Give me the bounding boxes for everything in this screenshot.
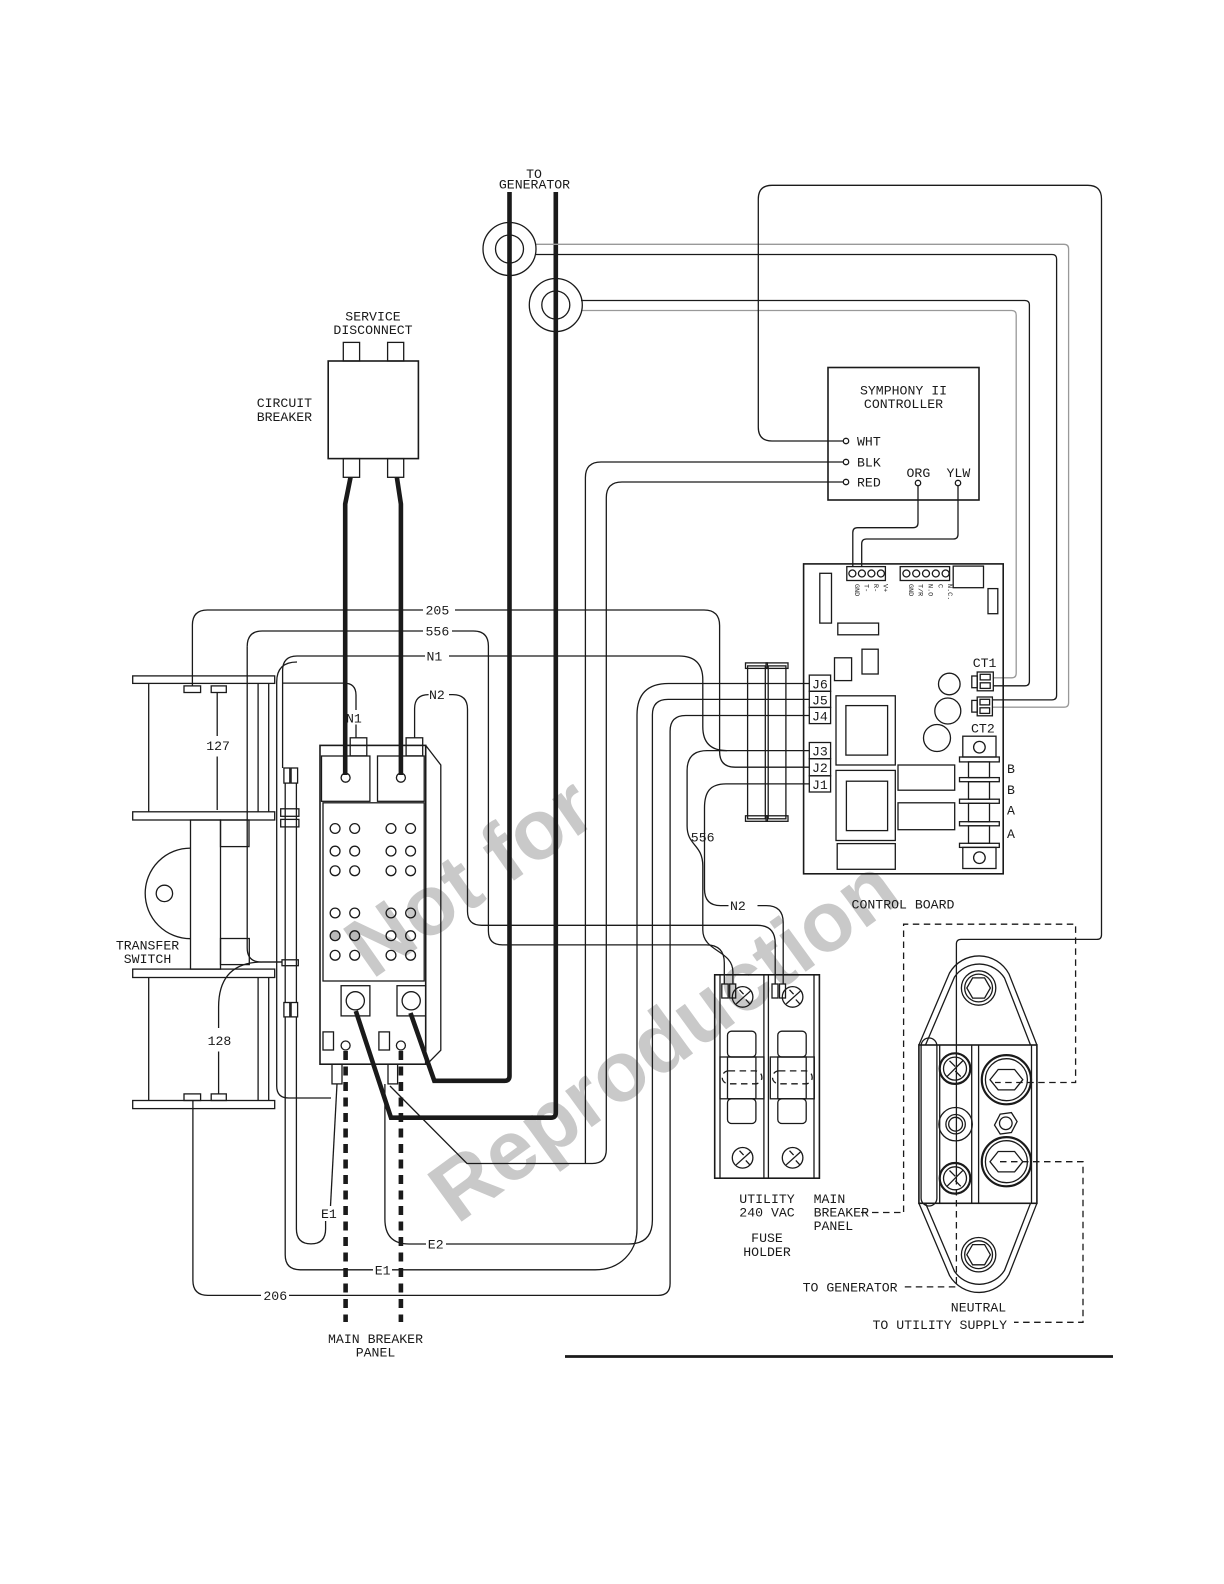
screw lower left <box>940 1163 971 1194</box>
svg-text:N.O: N.O <box>926 584 934 596</box>
connector J3 <box>809 743 830 759</box>
fuse right module terminal pins <box>772 984 778 998</box>
svg-text:PANEL: PANEL <box>356 1346 396 1361</box>
wire swoop from coil 128 leader to contactor cap <box>219 962 282 1007</box>
wire: generator conductor A (thick) from TO GENERATOR through CT ring 1 to contactor lug <box>411 192 510 1081</box>
bottom border rule <box>565 1355 1113 1358</box>
svg-text:206: 206 <box>263 1289 287 1304</box>
wire: generator conductor B (thick) from TO GENERATOR through CT ring 2 to contactor lug <box>356 192 556 1118</box>
wire BLK from controller down to contactor coil terminal <box>585 462 843 1163</box>
component square small <box>862 649 878 674</box>
svg-text:CONTROL BOARD: CONTROL BOARD <box>852 897 955 912</box>
svg-text:GND: GND <box>852 584 860 596</box>
svg-text:128: 128 <box>208 1034 232 1049</box>
component small vertical rect right <box>988 589 998 614</box>
svg-text:CIRCUIT: CIRCUIT <box>257 396 312 411</box>
contactor lower small terminal left <box>323 1032 334 1050</box>
lug upper right <box>982 1055 1031 1104</box>
terminal RED <box>843 479 848 484</box>
svg-text:J6: J6 <box>812 677 828 692</box>
wire: CT ring1 lower lead to CT2 connector <box>536 255 1057 700</box>
svg-text:N.C.: N.C. <box>945 584 953 600</box>
svg-text:T/R: T/R <box>916 584 924 596</box>
svg-text:SWITCH: SWITCH <box>124 952 171 967</box>
connector CT2 <box>972 700 977 712</box>
wire RED from controller down and diagonal to contactor terminal <box>390 482 843 1164</box>
svg-text:T-: T- <box>861 584 869 592</box>
current transformer ring CT2 (lower) <box>529 279 582 332</box>
nut middle right <box>995 1113 1018 1134</box>
svg-text:556: 556 <box>426 625 450 640</box>
transfer switch pivot circle <box>156 885 172 901</box>
fuse screw bottom left <box>732 1148 753 1169</box>
wire contactor pin-pair vertical left <box>284 783 286 1002</box>
svg-text:BLK: BLK <box>857 456 881 471</box>
fuse element left lower <box>728 1099 756 1124</box>
contactor lower small terminal right <box>379 1032 390 1050</box>
coil 127 terminal tabs <box>184 686 201 693</box>
svg-text:127: 127 <box>206 739 230 754</box>
svg-text:A: A <box>1007 803 1015 818</box>
circuit breaker terminal tabs <box>343 342 359 361</box>
terminal strip B B A A top box <box>963 736 996 757</box>
current transformer ring CT1 (top) <box>483 223 536 276</box>
contactor main body <box>323 803 424 981</box>
svg-text:J5: J5 <box>812 693 828 708</box>
op-amp: symphony II controller box <box>828 368 979 501</box>
svg-text:J2: J2 <box>812 761 828 776</box>
contactor side pin pair lower <box>284 1003 290 1017</box>
svg-text:205: 205 <box>426 604 450 619</box>
svg-text:ORG: ORG <box>907 466 931 481</box>
svg-text:E1: E1 <box>375 1263 391 1278</box>
fuse screw top right <box>782 987 803 1008</box>
svg-text:B: B <box>1007 783 1015 798</box>
fuse band right <box>770 1057 814 1099</box>
connector J5 <box>809 691 830 707</box>
coil 128 upper flange <box>133 969 275 977</box>
svg-text:E1: E1 <box>321 1207 337 1222</box>
neutral lug assembly top ear <box>919 956 1037 1045</box>
svg-text:B: B <box>1007 762 1015 777</box>
harness connector bar left <box>748 666 766 819</box>
wire J3 branch weaving to fuse holder left terminal 2 <box>687 751 733 984</box>
relay K1 <box>898 765 955 790</box>
connector J2 <box>809 759 830 776</box>
terminal WHT <box>843 438 848 443</box>
wire N1 jumper to contactor N1 terminal <box>283 683 356 738</box>
wire N2 from label to fuse holder right terminal 1 <box>449 695 775 984</box>
leader line 127 <box>216 693 218 811</box>
component bottom rect <box>837 844 895 870</box>
contactor bottom tab left <box>332 1064 342 1084</box>
wire parallel run beside coil (N1 branch) <box>277 662 331 1098</box>
fuse element right lower <box>778 1099 806 1124</box>
svg-text:N1: N1 <box>346 711 362 726</box>
transfer switch actuator column <box>191 820 221 969</box>
wire: service disconnect breaker lead right (thick) <box>397 478 401 776</box>
wire 556 left tail down to contactor cap terminal <box>247 647 282 962</box>
wire N2 from label to contactor N2 terminal <box>415 695 429 738</box>
coil 128 lower flange <box>133 1101 275 1109</box>
washer middle left <box>939 1108 972 1141</box>
connector J6 <box>809 675 830 691</box>
terminal strip separator plates and screws <box>960 757 1000 762</box>
contactor side tabs <box>281 809 299 817</box>
contactor bottom tab right <box>388 1064 398 1084</box>
contactor lug circle left <box>341 773 350 782</box>
fuse element left upper <box>728 1031 756 1057</box>
circuit breaker (service disconnect) body <box>328 361 418 459</box>
svg-text:TO UTILITY SUPPLY: TO UTILITY SUPPLY <box>873 1318 1008 1333</box>
dashed link lower lug to utility supply <box>1000 1162 1083 1323</box>
svg-text:N1: N1 <box>427 650 443 665</box>
terminal block 1 (V+ R T GND) <box>847 567 886 581</box>
contactor (transfer switch contact block) outline <box>320 745 426 1064</box>
neutral assembly hinge capsule <box>921 1038 937 1206</box>
terminal BLK <box>843 459 848 464</box>
dashed link main breaker panel to neutral frame <box>861 1212 904 1214</box>
connector CT1 <box>972 676 977 688</box>
terminal block 2 (GND T/R N.O C N.C) <box>900 567 949 581</box>
svg-text:DISCONNECT: DISCONNECT <box>333 323 412 338</box>
neutral lug assembly bottom ear <box>919 1203 1037 1292</box>
coil 127 lower flange <box>133 812 275 820</box>
svg-text:C: C <box>935 584 943 588</box>
connector J1 <box>809 776 830 792</box>
contactor lower section left <box>341 986 370 1016</box>
svg-text:N2: N2 <box>730 899 746 914</box>
terminal strip bottom box <box>963 847 996 868</box>
capacitor circle 2 <box>935 698 961 724</box>
svg-text:V+: V+ <box>880 584 888 592</box>
screw upper left <box>940 1053 971 1084</box>
fuse dashed capsule left <box>722 1071 762 1084</box>
fuse element right upper <box>778 1031 806 1057</box>
relay K2 <box>898 803 955 830</box>
bolt hex bottom <box>961 1238 995 1272</box>
svg-text:PANEL: PANEL <box>814 1219 854 1234</box>
wire E1 upper leg from contactor bottom tab <box>331 1084 338 1206</box>
fuse screw bottom right <box>782 1148 803 1169</box>
wire E2 from J5 via connector to contactor tab <box>385 699 809 1244</box>
terminal block N2 <box>406 738 423 756</box>
neutral lug assembly middle body <box>919 1045 1037 1203</box>
svg-text:NEUTRAL: NEUTRAL <box>951 1301 1006 1316</box>
wire E1 from J6 via connector to contactor pin <box>285 684 809 1270</box>
harness connector bar right <box>768 666 786 819</box>
wire J1 to N2 label to fuse holder right terminal 2 <box>705 784 810 984</box>
svg-text:N2: N2 <box>429 688 445 703</box>
contactor side cap terminal <box>282 960 298 966</box>
wire contactor pin-pair vertical right <box>295 783 297 1002</box>
svg-text:BREAKER: BREAKER <box>257 410 312 425</box>
transfer switch step block upper <box>221 820 250 847</box>
transfer switch step block lower <box>221 939 250 965</box>
svg-text:J1: J1 <box>812 778 828 793</box>
wire YLW from controller to control board terminal <box>862 486 958 567</box>
svg-text:J3: J3 <box>812 745 828 760</box>
coil 127 body <box>149 683 269 811</box>
wire: service disconnect breaker lead left (thick) <box>345 478 350 776</box>
fuse screw top left <box>732 987 753 1008</box>
svg-text:TO GENERATOR: TO GENERATOR <box>803 1281 898 1296</box>
wire WHT from controller around top to neutral lug assembly <box>758 185 1101 1178</box>
component square small 2 <box>835 658 852 681</box>
component rect top right <box>953 566 983 588</box>
wire: CT ring2 upper lead to CT1 connector <box>581 301 1029 686</box>
svg-text:HOLDER: HOLDER <box>743 1245 791 1260</box>
wire N1 from contactor area to J3 <box>297 656 809 751</box>
wire 206 from J4 down around to coil 128 terminal <box>193 716 809 1296</box>
fuse dashed capsule right <box>773 1071 813 1084</box>
fuse band left <box>720 1057 764 1099</box>
contactor upper window left <box>322 756 370 801</box>
wire: CT ring1 upper lead (gray) to CT2 connector <box>536 244 1069 707</box>
coil 127 upper flange <box>133 676 275 684</box>
dashed frame upper (main breaker panel circuit) <box>904 924 1076 1212</box>
component tall rect left <box>820 573 832 623</box>
wire E1 U-turn from contactor pin pair <box>296 1017 325 1244</box>
wire 205 from coil 127 terminal to J2 <box>192 610 809 767</box>
transformer U2 outer <box>836 770 895 840</box>
wire: dashed feeder to main breaker panel (right) <box>399 1051 404 1322</box>
svg-text:R-: R- <box>871 584 879 592</box>
wire ORG from controller to control board terminal <box>853 486 918 567</box>
svg-text:FUSE: FUSE <box>751 1231 783 1246</box>
svg-text:WHT: WHT <box>857 435 881 450</box>
capacitor circle 1 <box>939 673 961 695</box>
wire 556 from coil area to fuse holder terminal <box>247 631 724 984</box>
fuse left module terminal pins <box>722 984 728 998</box>
svg-text:YLW: YLW <box>947 466 971 481</box>
contactor lug circle right <box>396 773 405 782</box>
contactor upper window right <box>378 756 425 801</box>
svg-text:RED: RED <box>857 476 881 491</box>
lug lower right <box>982 1137 1031 1186</box>
component horizontal rect <box>838 623 879 635</box>
svg-text:J4: J4 <box>812 710 828 725</box>
capacitor circle 3 <box>924 725 951 752</box>
svg-text:240 VAC: 240 VAC <box>739 1206 794 1221</box>
terminal block N1 <box>350 738 367 756</box>
fuse holder outline <box>715 975 820 1178</box>
coil 128 terminal tabs <box>184 1094 201 1101</box>
svg-text:A: A <box>1007 827 1015 842</box>
control board outline <box>804 564 1004 874</box>
svg-text:CT2: CT2 <box>971 721 995 736</box>
connector J4 <box>809 707 830 723</box>
transformer U1 outer <box>836 696 895 765</box>
wire N1 left tail to contactor pin pair <box>283 656 297 768</box>
wire WHT dashed tail to TO GENERATOR label <box>901 1178 956 1287</box>
contactor lower section right <box>397 986 426 1016</box>
pin labels block 2 <box>906 584 953 600</box>
contactor terminal dots grid <box>330 824 415 961</box>
svg-text:GENERATOR: GENERATOR <box>499 178 570 193</box>
svg-text:E2: E2 <box>428 1238 444 1253</box>
wire: dashed feeder to main breaker panel (left) <box>343 1051 348 1322</box>
contactor bevel side <box>426 745 441 1064</box>
coil 128 body <box>149 978 269 1101</box>
wire: CT ring2 lower lead (gray) to CT1 connector <box>581 311 1016 678</box>
transfer switch cam semicircle <box>145 848 190 939</box>
leader line 128 <box>218 1007 220 1094</box>
svg-text:CT1: CT1 <box>973 656 997 671</box>
fuse holder inner rails <box>720 975 814 1178</box>
contactor side pin pair upper <box>284 768 290 783</box>
bolt hex top <box>961 971 995 1005</box>
svg-text:GND: GND <box>906 584 914 596</box>
pin labels block 1 <box>852 584 889 596</box>
svg-text:556: 556 <box>691 831 715 846</box>
svg-text:CONTROLLER: CONTROLLER <box>864 397 943 412</box>
